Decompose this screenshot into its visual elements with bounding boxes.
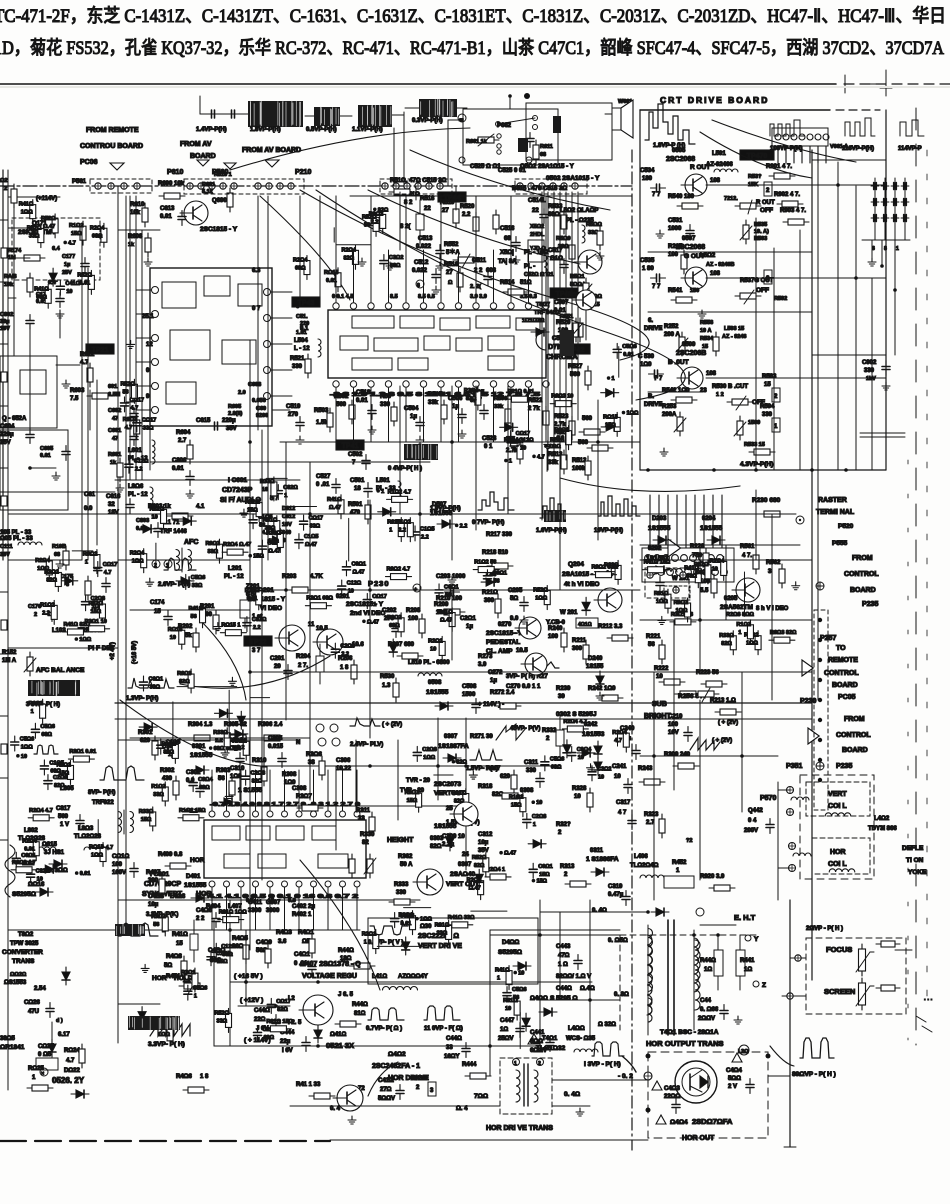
resistor (texture) zone I top mid left bbox=[335, 268, 341, 292]
capacitor (texture) zone E left edge low bbox=[11, 736, 19, 751]
resistor (texture) zone G right-of-board video bbox=[705, 560, 711, 584]
svg-text:100: 100 bbox=[408, 616, 419, 622]
svg-text:82Ω: 82Ω bbox=[277, 1007, 288, 1013]
resistor (texture) zone G right-of-board video bbox=[755, 631, 761, 655]
svg-text:R506: R506 bbox=[494, 396, 507, 402]
svg-text:L4Ω8: L4Ω8 bbox=[170, 894, 186, 900]
resistor R561 bbox=[753, 550, 759, 574]
focus wires bbox=[782, 950, 912, 996]
svg-text:0. Ω5Ω: 0. Ω5Ω bbox=[608, 938, 628, 944]
svg-text:1.01: 1.01 bbox=[296, 330, 307, 336]
svg-text:15Ω: 15Ω bbox=[536, 879, 547, 885]
svg-text:82Ω: 82Ω bbox=[179, 679, 190, 685]
svg-text:C177: C177 bbox=[62, 254, 75, 260]
svg-text:56: 56 bbox=[122, 389, 128, 395]
pot R.OUT OFF bbox=[735, 200, 775, 214]
resistor R410 boxed bbox=[190, 920, 198, 962]
resistor (texture) zone C left sync bbox=[150, 807, 156, 831]
wire h y740 bbox=[118, 739, 300, 741]
wire v x598 low bbox=[597, 400, 599, 540]
svg-text:100: 100 bbox=[112, 862, 123, 868]
svg-text:200A: 200A bbox=[662, 412, 677, 418]
svg-text:TVR - 20: TVR - 20 bbox=[406, 778, 431, 784]
svg-text:C2Ω8: C2Ω8 bbox=[422, 747, 437, 753]
svg-text:1.1VP-P(H): 1.1VP-P(H) bbox=[352, 127, 383, 133]
resistor R401 boxed bbox=[309, 934, 315, 958]
IC601 inner box 1 bbox=[162, 282, 196, 308]
horizontal rule under title bbox=[0, 83, 836, 85]
resistor (texture) zone D far-left mid bbox=[94, 550, 100, 574]
contact circles P662 bbox=[497, 134, 501, 154]
wire h y462 mid bbox=[150, 461, 430, 463]
svg-text:1 V: 1 V bbox=[60, 822, 69, 828]
svg-text:R690 10k: R690 10k bbox=[158, 181, 185, 187]
svg-text:Ω. 4: Ω. 4 bbox=[456, 1106, 468, 1112]
diode (texture) zone C left sync bbox=[214, 709, 232, 717]
chroma inner box row2 e bbox=[488, 336, 514, 350]
svg-text:C447: C447 bbox=[500, 1018, 515, 1024]
capacitor (texture) zone K power left bbox=[267, 998, 275, 1013]
chroma inner box row1 e bbox=[516, 318, 540, 330]
svg-text:10: 10 bbox=[66, 289, 72, 295]
resistor R306b bbox=[319, 756, 325, 780]
diode (texture) zone L video right bbox=[582, 597, 590, 615]
svg-text:R152: R152 bbox=[2, 650, 17, 656]
capacitor (texture) zone F vert drive bbox=[391, 913, 399, 928]
ground (texture) zone C left sync bbox=[228, 677, 236, 685]
resistor R10B bbox=[63, 546, 69, 570]
svg-text:HOR: HOR bbox=[152, 975, 167, 982]
boxed 2 g bbox=[764, 270, 772, 284]
svg-text:C203 1000: C203 1000 bbox=[436, 574, 466, 580]
svg-text:15Ω: 15Ω bbox=[511, 803, 522, 809]
svg-text:R212 3.3: R212 3.3 bbox=[598, 624, 623, 630]
svg-text:R610: R610 bbox=[130, 202, 145, 208]
resistor (texture) zone I top mid left bbox=[380, 209, 386, 233]
capacitor (texture) zone C left sync bbox=[140, 676, 148, 691]
coil L591 sym bbox=[714, 169, 738, 172]
resistor (texture) zone D far-left mid bbox=[46, 556, 52, 580]
node (texture) zone T eht left bbox=[513, 971, 517, 975]
wire (texture) zone S mid band2 bbox=[617, 730, 619, 746]
svg-text:R611: R611 bbox=[540, 144, 553, 150]
svg-text:R3Ω1: R3Ω1 bbox=[362, 932, 377, 938]
svg-text:200 A: 200 A bbox=[664, 332, 680, 338]
waveform 0.7VP mid bbox=[478, 492, 514, 510]
svg-text:4.7: 4.7 bbox=[125, 425, 133, 431]
focus conn circles bbox=[787, 955, 801, 999]
svg-text:56: 56 bbox=[364, 222, 370, 228]
svg-text:22ΩΩ: 22ΩΩ bbox=[664, 1094, 680, 1100]
wire v x336 low bbox=[335, 766, 337, 850]
diode D204 bbox=[707, 536, 725, 544]
svg-text:WCS- Ω35: WCS- Ω35 bbox=[566, 1036, 596, 1042]
IC601 pin circles right bbox=[264, 289, 271, 400]
capacitor (texture) zone M mid gap bbox=[274, 485, 282, 500]
capacitor (texture) zone B video band bbox=[342, 561, 350, 576]
capacitor C319 bbox=[622, 891, 630, 906]
left edge comp ticks bbox=[1, 248, 7, 754]
connector strip P610/P560 bbox=[187, 183, 237, 189]
wire h y590 mid bbox=[250, 589, 640, 591]
capacitor (texture) zone Q chroma lower mid bbox=[411, 526, 419, 541]
connector strip P210 right bbox=[517, 183, 578, 189]
right edge marks bbox=[916, 996, 933, 1032]
chroma inner box row1 b bbox=[400, 316, 434, 328]
resistor R530 bbox=[393, 678, 399, 702]
svg-text:D203: D203 bbox=[652, 516, 667, 522]
capacitor (texture) zone O low mid2 bbox=[529, 863, 537, 878]
coil vert sym bbox=[791, 797, 809, 800]
svg-text:47: 47 bbox=[112, 416, 118, 422]
conn circ hor b bbox=[789, 865, 796, 872]
svg-text:FROM: FROM bbox=[844, 716, 865, 723]
svg-text:0204: 0204 bbox=[702, 516, 716, 522]
diode (texture) zone Q chroma lower mid bbox=[378, 508, 396, 516]
resistor (texture) zone A left-center bbox=[256, 498, 262, 522]
svg-text:REMOTE: REMOTE bbox=[828, 657, 858, 664]
svg-text:R1Ω2: R1Ω2 bbox=[396, 520, 411, 526]
svg-text:R540 180: R540 180 bbox=[668, 194, 695, 200]
transistor Q407 regulator bbox=[299, 995, 333, 1025]
svg-text:P570: P570 bbox=[760, 795, 776, 802]
svg-text:300: 300 bbox=[572, 646, 583, 652]
IC601 inner box 6 bbox=[166, 382, 196, 404]
svg-text:R OUT: R OUT bbox=[756, 200, 775, 206]
resistor R228 bbox=[703, 548, 709, 572]
svg-text:Q442: Q442 bbox=[748, 808, 763, 814]
svg-text:0 4: 0 4 bbox=[748, 818, 757, 824]
capacitor C613 0.01 bbox=[160, 206, 186, 226]
svg-text:10: 10 bbox=[348, 589, 354, 595]
chroma pin circles top bbox=[333, 303, 549, 309]
svg-text:C518: C518 bbox=[356, 390, 371, 396]
node (texture) zone E left edge low bbox=[75, 871, 79, 875]
eht box lines bbox=[490, 930, 760, 1030]
wire v x420 low bbox=[419, 442, 421, 610]
capacitor (texture) zone E left edge low bbox=[31, 723, 39, 738]
svg-text:Ω4ΩΩ: Ω4ΩΩ bbox=[530, 996, 548, 1002]
svg-text:33k: 33k bbox=[548, 460, 559, 466]
resistor R313 bbox=[565, 881, 591, 887]
svg-text:330: 330 bbox=[396, 890, 407, 896]
svg-text:C1Ω5: C1Ω5 bbox=[304, 534, 319, 540]
svg-text:1S1887FA: 1S1887FA bbox=[438, 743, 469, 750]
wire (texture) zone C left sync bbox=[172, 702, 174, 749]
svg-text:0.01: 0.01 bbox=[401, 921, 412, 927]
svg-text:SCREEN: SCREEN bbox=[824, 987, 855, 996]
svg-text:RAI3: RAI3 bbox=[4, 274, 17, 280]
resistor (texture) zone D far-left mid bbox=[99, 599, 105, 623]
wire v x490 eht bbox=[489, 930, 491, 1076]
capacitor (texture) zone H below chroma right bbox=[507, 431, 515, 446]
CRT pin stub down 3 bbox=[893, 240, 897, 355]
coil L501 bbox=[398, 481, 401, 499]
svg-text:C402 2μ: C402 2μ bbox=[292, 904, 315, 910]
svg-text:OFF: OFF bbox=[760, 207, 773, 214]
svg-text:L - 12: L - 12 bbox=[294, 346, 310, 352]
svg-text:22Ω: 22Ω bbox=[254, 1017, 266, 1023]
svg-text:R5Ω9: R5Ω9 bbox=[556, 236, 571, 242]
wire h y545 right bbox=[640, 544, 800, 546]
svg-text:10μ: 10μ bbox=[478, 840, 489, 846]
svg-text:C44Ω: C44Ω bbox=[254, 1008, 270, 1014]
node (texture) zone D far-left mid bbox=[75, 637, 79, 641]
wire v x560 eht bbox=[559, 912, 561, 1000]
resistor R562 bbox=[779, 564, 785, 588]
svg-text:1599: 1599 bbox=[748, 420, 760, 426]
svg-text:R318: R318 bbox=[478, 784, 493, 790]
resistor (texture) zone P top left bbox=[45, 284, 51, 308]
box P662 bbox=[463, 109, 558, 165]
svg-text:0. 4: 0. 4 bbox=[330, 1106, 341, 1112]
svg-text:56: 56 bbox=[153, 922, 159, 928]
wire (texture) zone M mid gap bbox=[266, 477, 287, 479]
svg-text:68Ω: 68Ω bbox=[295, 266, 306, 272]
right vertical tick bottom bbox=[784, 1146, 796, 1148]
svg-text:25ΩV: 25ΩV bbox=[498, 1036, 514, 1042]
svg-text:R1Ω2 4.7: R1Ω2 4.7 bbox=[388, 489, 412, 495]
resistor R601 1k bbox=[108, 452, 123, 482]
svg-text:C602: C602 bbox=[108, 408, 121, 414]
svg-text:27Ω: 27Ω bbox=[380, 1087, 392, 1093]
svg-text:R9Ω2 4.7: R9Ω2 4.7 bbox=[387, 567, 411, 573]
junction dots power bbox=[244, 980, 320, 1048]
svg-text:YOKE: YOKE bbox=[908, 869, 927, 876]
hot junction dots bbox=[646, 1054, 771, 1113]
svg-text:10: 10 bbox=[170, 635, 176, 641]
svg-text:AZΩΩΩ4Y: AZΩΩΩ4Y bbox=[398, 974, 428, 980]
capacitor C519 bbox=[296, 417, 304, 432]
svg-text:1.6VP-P(H): 1.6VP-P(H) bbox=[536, 528, 567, 534]
svg-text:C616: C616 bbox=[106, 494, 121, 500]
resistor (texture) zone O low mid2 bbox=[483, 853, 489, 877]
svg-text:1S1555: 1S1555 bbox=[700, 525, 723, 532]
resistor (texture) zone G right-of-board video bbox=[665, 589, 671, 613]
svg-text:2.2: 2.2 bbox=[398, 528, 406, 534]
chroma inner box row2 b bbox=[374, 338, 418, 351]
svg-text:N: N bbox=[296, 740, 300, 746]
ground IF bbox=[62, 380, 70, 388]
capacitor C601 47 bbox=[108, 428, 138, 446]
diode (texture) zone C left sync bbox=[230, 730, 248, 738]
circled plus right2 bbox=[816, 762, 824, 770]
resistor R519 bbox=[453, 204, 459, 228]
resistor (texture) zone P top left bbox=[30, 200, 36, 224]
hdt conn 1 bbox=[513, 1059, 520, 1068]
capacitor (texture) zone B video band bbox=[331, 643, 339, 658]
resistor R323 boxed bbox=[659, 814, 665, 838]
capacitor (texture) zone D far-left mid bbox=[94, 562, 102, 577]
left power wires bbox=[8, 900, 160, 1090]
svg-text:R4Ω6: R4Ω6 bbox=[176, 1074, 192, 1080]
right connector dashed box bbox=[814, 610, 828, 810]
svg-text:1: 1 bbox=[774, 424, 778, 430]
svg-text:CONTROL: CONTROL bbox=[844, 571, 879, 578]
svg-text:R41Ω: R41Ω bbox=[438, 610, 453, 616]
svg-text:82Ω: 82Ω bbox=[343, 255, 354, 261]
coil L802 bbox=[32, 847, 56, 850]
svg-text:d ): d ) bbox=[56, 1018, 63, 1024]
capacitor C513 bbox=[436, 245, 444, 260]
diode 1S1820 bbox=[531, 328, 549, 336]
pot R561b bbox=[580, 278, 592, 302]
capacitor C602 47 bbox=[108, 408, 138, 423]
svg-text:R2Ω4: R2Ω4 bbox=[464, 388, 479, 394]
svg-text:L503 15: L503 15 bbox=[724, 326, 744, 332]
wire h y930 left bbox=[8, 929, 230, 931]
svg-text:2.2: 2.2 bbox=[237, 745, 245, 751]
resistor R529 bbox=[577, 318, 583, 342]
svg-text:2.2: 2.2 bbox=[557, 436, 565, 442]
ground (texture) zone R sif left bbox=[127, 340, 135, 348]
svg-text:4 7.: 4 7. bbox=[742, 553, 752, 559]
resistor R611 68 bbox=[533, 140, 553, 164]
svg-text:R2Ω4: R2Ω4 bbox=[293, 258, 308, 264]
svg-text:56: 56 bbox=[696, 570, 702, 576]
svg-text:16V: 16V bbox=[668, 730, 679, 736]
resistor (texture h) zone A left-center bbox=[220, 630, 246, 636]
capacitor (texture) zone C left sync bbox=[157, 739, 165, 754]
svg-text:2.2: 2.2 bbox=[421, 534, 429, 540]
svg-text:10: 10 bbox=[712, 566, 718, 572]
vertical x130 bundle bbox=[130, 196, 142, 480]
svg-text:15: 15 bbox=[176, 941, 183, 947]
node (texture) zone N low mid bbox=[531, 800, 535, 804]
ground (texture) zone C left sync bbox=[221, 749, 229, 757]
resistor R502 bbox=[349, 400, 355, 424]
svg-text:1S1555: 1S1555 bbox=[184, 882, 207, 889]
svg-text:16ΩY: 16ΩY bbox=[444, 1054, 460, 1060]
resistor (texture) zone P top left bbox=[101, 223, 107, 247]
svg-text:TRF922: TRF922 bbox=[92, 800, 114, 806]
svg-text:TO: TO bbox=[836, 645, 846, 652]
wire +114V bbox=[8, 196, 60, 198]
wire (texture) zone G right-of-board video bbox=[743, 572, 745, 616]
svg-text:0.47μ: 0.47μ bbox=[608, 892, 624, 898]
svg-text:1 80: 1 80 bbox=[642, 266, 654, 272]
svg-text:2: 2 bbox=[774, 394, 778, 400]
svg-text:R52Ω: R52Ω bbox=[88, 601, 103, 607]
svg-text:2 7k: 2 7k bbox=[528, 406, 540, 412]
svg-text:R452: R452 bbox=[672, 860, 687, 866]
resistor R272 bbox=[495, 703, 521, 709]
wire v x742 low bbox=[741, 672, 743, 812]
capacitor C517 bbox=[560, 259, 568, 274]
svg-text:2: 2 bbox=[34, 612, 37, 618]
waveform photo blob 1.1VP-P(H) bbox=[358, 105, 404, 127]
wire h y766 bbox=[260, 765, 560, 767]
svg-text:81Ω: 81Ω bbox=[354, 1011, 366, 1017]
svg-text:- 0. 2: - 0. 2 bbox=[618, 1073, 633, 1080]
svg-text:100: 100 bbox=[548, 634, 559, 640]
capacitor (texture) zone K power left bbox=[254, 1026, 262, 1041]
svg-text:8: 8 bbox=[884, 246, 887, 252]
svg-text:C 530: C 530 bbox=[638, 354, 655, 360]
resistor (texture) zone P top left bbox=[88, 270, 94, 294]
resistor (texture) zone O low mid2 bbox=[478, 876, 484, 900]
svg-text:C512: C512 bbox=[414, 260, 429, 266]
svg-text:X5Ω|: X5Ω| bbox=[500, 250, 514, 256]
svg-text:C241: C241 bbox=[612, 764, 627, 770]
capacitor C304 bbox=[236, 753, 244, 768]
capacitor C401 bbox=[308, 961, 316, 976]
svg-text:10: 10 bbox=[152, 514, 158, 520]
resistor R310 bbox=[261, 762, 267, 786]
capacitor C241 bbox=[624, 779, 632, 794]
resistor R441 boxed bbox=[736, 935, 745, 990]
svg-text:1: 1 bbox=[389, 528, 392, 534]
svg-text:1500: 1500 bbox=[462, 692, 476, 698]
capacitor (texture) zone E left edge low bbox=[44, 775, 52, 790]
svg-text:+ 114V ) -: + 114V ) - bbox=[478, 702, 504, 708]
capacitor C40x bbox=[212, 913, 220, 928]
resistor R521 bbox=[305, 354, 311, 378]
svg-text:AFC BAL ANCE: AFC BAL ANCE bbox=[36, 667, 85, 674]
resistor R444 bbox=[465, 1073, 491, 1079]
resistor (texture) zone S mid band2 bbox=[623, 728, 629, 752]
dense wires left mid bbox=[8, 208, 82, 560]
resistor (texture) zone N low mid bbox=[520, 793, 526, 817]
svg-text:0 0.1 4.5: 0 0.1 4.5 bbox=[332, 294, 353, 300]
svg-text:180: 180 bbox=[642, 176, 653, 182]
resistor (texture) zone A left-center bbox=[216, 539, 222, 563]
screen pot bbox=[856, 978, 874, 1010]
svg-text:10: 10 bbox=[518, 971, 524, 977]
svg-text:C4Ω3: C4Ω3 bbox=[664, 1086, 680, 1092]
vert coil winding bbox=[825, 813, 851, 816]
svg-text:R304 1.3: R304 1.3 bbox=[188, 722, 213, 728]
svg-text:0509: 0509 bbox=[682, 342, 696, 348]
resistor R522 bbox=[543, 406, 549, 430]
resistor R243 bbox=[639, 779, 665, 785]
svg-text:PC06: PC06 bbox=[80, 159, 98, 166]
capacitor (texture) zone J right chroma strip bbox=[613, 343, 621, 358]
resistor R514 h bbox=[503, 289, 529, 295]
svg-text:1: 1 bbox=[896, 246, 899, 252]
svg-text:33: 33 bbox=[446, 1045, 453, 1051]
svg-text:C531: C531 bbox=[668, 218, 683, 224]
svg-text:15: 15 bbox=[459, 117, 464, 122]
resistor (texture) zone E left edge low bbox=[67, 760, 73, 784]
svg-text:3: 3 bbox=[430, 1088, 434, 1094]
svg-text:0.01: 0.01 bbox=[326, 278, 337, 284]
capacitor C826 bbox=[46, 1003, 54, 1018]
svg-text:Q - 652A: Q - 652A bbox=[2, 416, 27, 422]
svg-text:TERMI NAL: TERMI NAL bbox=[816, 509, 855, 516]
svg-text:R330: R330 bbox=[360, 832, 375, 838]
svg-text:1: 1 bbox=[497, 976, 500, 982]
resistor extra1 bbox=[265, 944, 271, 968]
svg-text:TRANS: TRANS bbox=[12, 958, 35, 965]
label TP42b bbox=[562, 344, 590, 354]
transformer TRF9225 bbox=[118, 810, 134, 834]
svg-text:?2: ?2 bbox=[686, 838, 692, 844]
svg-text:33Ω: 33Ω bbox=[310, 524, 321, 530]
wire h y480 left bbox=[115, 479, 300, 481]
resistor (texture) zone G right-of-board video bbox=[695, 564, 701, 588]
svg-text:0.01: 0.01 bbox=[172, 466, 184, 472]
node (texture) zone A left-center bbox=[248, 554, 252, 558]
resistor (texture) zone K power left bbox=[192, 968, 198, 992]
resistor R305 bbox=[225, 735, 251, 741]
waveform photo blob 1.8VP-P(H) bbox=[248, 101, 303, 127]
IF block inner bbox=[20, 370, 46, 394]
svg-text:R402 1: R402 1 bbox=[292, 912, 312, 918]
svg-text:R552: R552 bbox=[444, 242, 459, 248]
svg-text:BOARD: BOARD bbox=[190, 153, 216, 160]
svg-text:R310: R310 bbox=[252, 758, 267, 764]
